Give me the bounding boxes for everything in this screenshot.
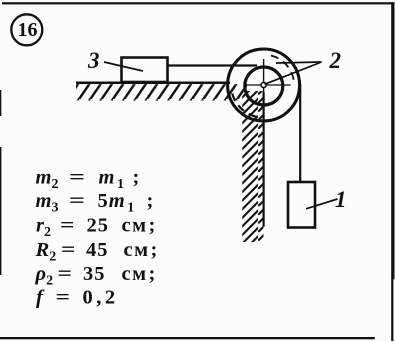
svg-text:2: 2 — [329, 48, 342, 73]
svg-text:1: 1 — [335, 187, 347, 212]
svg-text:16: 16 — [18, 19, 38, 41]
svg-text:3: 3 — [87, 48, 100, 73]
